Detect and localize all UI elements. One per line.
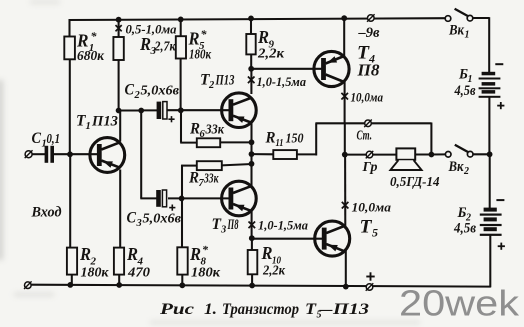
node T4 base tap bbox=[248, 66, 254, 72]
svg-text:R: R bbox=[188, 29, 200, 49]
label T5 bbox=[360, 217, 379, 240]
node T3 base/C3/R8 bbox=[179, 196, 185, 202]
label R8 180k bbox=[189, 243, 221, 281]
svg-text:П13: П13 bbox=[215, 73, 235, 89]
wire T1 emitter to R4 bbox=[119, 170, 121, 249]
svg-text:10,0ма: 10,0ма bbox=[351, 90, 384, 105]
bottom-left terminal bbox=[24, 281, 32, 289]
switch Vk2 bbox=[445, 145, 473, 157]
label R10 2.2k bbox=[261, 243, 286, 279]
battery B2 bbox=[480, 208, 502, 236]
x-mark 10.0mA (T4 collector) bbox=[341, 93, 348, 100]
svg-text:П8: П8 bbox=[227, 217, 239, 233]
label 0.5-1.0mA bbox=[126, 22, 177, 37]
wire input to C1 bbox=[32, 153, 46, 155]
node T1 base/R1/R2 bbox=[67, 151, 73, 157]
svg-text:R: R bbox=[76, 31, 88, 51]
capacitor C3 (polarized) bbox=[156, 190, 166, 207]
wire T4 base node to T2 collector (x-mark segment) bbox=[250, 69, 252, 94]
svg-text:0,5-1,0ма: 0,5-1,0ма bbox=[126, 22, 177, 37]
svg-text:Т: Т bbox=[305, 301, 317, 318]
wire R11 left bbox=[251, 153, 274, 155]
wire R8 bottom bbox=[181, 274, 183, 286]
label Vk2 bbox=[448, 159, 469, 177]
svg-text:33к: 33к bbox=[205, 122, 225, 137]
label Vk1 bbox=[448, 23, 469, 41]
wire R6 right bbox=[220, 141, 253, 143]
svg-text:680к: 680к bbox=[77, 49, 105, 64]
minus sign of B1 bbox=[495, 63, 503, 65]
label B2 bbox=[457, 205, 471, 224]
svg-text:4,5в: 4,5в bbox=[454, 83, 476, 99]
wire R9 bottom to T4 base node bbox=[250, 54, 252, 70]
resistor R9 bbox=[246, 34, 255, 54]
x-mark 1.0-1.5mA (T3 emitter) bbox=[249, 222, 256, 229]
caption Fig.1 bbox=[160, 301, 369, 321]
svg-text:Гр: Гр bbox=[362, 160, 378, 175]
label 0.5GD-14 bbox=[390, 175, 440, 190]
resistor R1 bbox=[64, 37, 75, 60]
svg-text:0,1: 0,1 bbox=[47, 131, 61, 146]
svg-text:2,7к: 2,7к bbox=[154, 39, 177, 54]
svg-text:150: 150 bbox=[286, 131, 304, 146]
label T2 P13 bbox=[200, 72, 235, 92]
svg-text:2: 2 bbox=[134, 90, 141, 101]
label -9V bbox=[357, 25, 380, 41]
node T4 emitter/top rail bbox=[341, 15, 347, 21]
svg-text:3: 3 bbox=[220, 225, 226, 236]
transistor T1 bbox=[90, 138, 125, 173]
wire R11 riser and ST line bbox=[315, 123, 431, 155]
svg-text:470: 470 bbox=[127, 266, 150, 281]
wire node A to C2/C3 tap bbox=[118, 109, 141, 111]
node R6 right/T2 emitter bbox=[249, 139, 255, 145]
wire battery B2 bottom to rail bbox=[489, 235, 491, 287]
svg-text:R: R bbox=[189, 244, 201, 264]
label R6 33k bbox=[189, 121, 225, 141]
node Vk2/battery midpoint bbox=[487, 151, 493, 157]
wire speaker to junction bbox=[415, 153, 432, 155]
plus sign of B2 bbox=[498, 243, 505, 250]
wire top supply rail -9V bbox=[69, 18, 446, 20]
transistor T4 bbox=[314, 51, 349, 86]
svg-text:R: R bbox=[126, 244, 138, 264]
switch Vk1 bbox=[445, 9, 473, 22]
label T3 P8 bbox=[212, 216, 239, 236]
node R9/top rail bbox=[248, 16, 254, 22]
resistor R3 bbox=[113, 37, 123, 60]
node R11 left bbox=[249, 151, 255, 157]
wire R3 top feed bbox=[118, 19, 120, 38]
label R9 2.2k bbox=[257, 27, 285, 62]
svg-text:Транзистор: Транзистор bbox=[222, 301, 299, 318]
wire R3 bottom to node A bbox=[118, 60, 120, 112]
svg-text:С: С bbox=[125, 82, 135, 99]
svg-text:10,0ма: 10,0ма bbox=[352, 200, 392, 215]
svg-text:R: R bbox=[139, 34, 151, 54]
svg-text:5,0х6в: 5,0х6в bbox=[143, 211, 182, 226]
watermark 20wek bbox=[399, 283, 520, 324]
input terminal bbox=[25, 150, 33, 158]
x-mark 1.0-1.5mA (T2 collector) bbox=[248, 77, 255, 84]
wire T1 collector riser bbox=[119, 110, 121, 142]
battery B1 bbox=[479, 72, 501, 98]
wire T5 emitter to bottom rail bbox=[345, 249, 347, 288]
resistor R4 bbox=[114, 248, 124, 275]
node R5/top rail bbox=[178, 17, 184, 23]
wire bottom positive rail bbox=[30, 285, 491, 287]
wire R4 bottom bbox=[118, 274, 120, 286]
resistor R6 (horizontal) bbox=[197, 138, 220, 147]
wire C1 to T1 base bbox=[54, 153, 98, 155]
wire C2/C3 vertical tap bbox=[140, 110, 142, 199]
label 4.5V of B2 bbox=[453, 221, 476, 237]
svg-text:180к: 180к bbox=[81, 266, 110, 281]
wire top rail from switch Vk1 to battery corner bbox=[473, 17, 489, 19]
terminal plus (bottom) bbox=[366, 283, 374, 291]
wire C2 right to T2 base bbox=[167, 109, 230, 111]
svg-text:33к: 33к bbox=[203, 171, 219, 186]
svg-text:П13: П13 bbox=[332, 301, 370, 318]
svg-text:R: R bbox=[257, 27, 269, 47]
plus sign of B1 bbox=[497, 102, 504, 109]
svg-text:—: — bbox=[319, 301, 333, 318]
wire output column T4 collector to T5 collector bbox=[344, 81, 347, 229]
node R7 right/T3 collector bbox=[249, 161, 255, 167]
wire between batteries bbox=[488, 97, 490, 208]
label C3 5.0x6V bbox=[127, 210, 182, 230]
svg-text:R: R bbox=[79, 244, 91, 264]
wire R7 right bbox=[222, 164, 253, 165]
terminal GR (speaker tap) bbox=[366, 151, 374, 159]
transistor T5 bbox=[315, 221, 350, 256]
node R4/bottom rail bbox=[116, 282, 122, 288]
wire R7 node to T3 collector bbox=[250, 164, 252, 188]
svg-text:П8: П8 bbox=[356, 61, 380, 80]
label ST bbox=[357, 129, 373, 144]
label Vhod (input) bbox=[31, 205, 62, 221]
svg-text:*: * bbox=[91, 29, 98, 43]
label B1 bbox=[458, 67, 472, 86]
svg-text:Вк: Вк bbox=[448, 159, 464, 175]
node R2/bottom rail bbox=[67, 282, 73, 288]
svg-text:2: 2 bbox=[463, 166, 469, 177]
svg-text:Т: Т bbox=[360, 217, 373, 238]
wire R10 bottom bbox=[251, 274, 253, 286]
node R10/bottom rail bbox=[249, 283, 255, 289]
wire R5 bottom feed bbox=[180, 58, 182, 112]
resistor R2 bbox=[67, 248, 77, 275]
label R5 180k bbox=[188, 27, 212, 62]
label 1.0-1.5mA bottom bbox=[258, 218, 308, 233]
svg-text:0,5ГД-14: 0,5ГД-14 bbox=[390, 175, 440, 190]
wire R11 right bbox=[297, 153, 317, 155]
wire T3 emitter to T5 base node bbox=[251, 210, 253, 239]
capacitor C1 bbox=[45, 146, 54, 163]
wire GR line from output column to speaker bbox=[345, 154, 397, 156]
label R1 680k bbox=[76, 29, 105, 64]
wire T4 emitter to top rail bbox=[343, 18, 345, 59]
svg-text:180к: 180к bbox=[191, 266, 221, 281]
node R3/top rail bbox=[116, 17, 122, 23]
svg-text:Рис: Рис bbox=[160, 301, 194, 318]
svg-text:Вк: Вк bbox=[448, 23, 464, 39]
wire R6 node to R11 node to R7 node bbox=[250, 142, 252, 166]
svg-text:3: 3 bbox=[136, 218, 142, 229]
wire T5 base node to R10 bbox=[251, 238, 253, 251]
x-mark 10.0mA (T5 collector) bbox=[342, 202, 349, 209]
label C2 5.0x6V bbox=[125, 82, 180, 102]
speaker Gr 0.5GD-14 bbox=[390, 148, 421, 170]
svg-text:*: * bbox=[201, 27, 208, 41]
transistor T3 bbox=[222, 181, 257, 216]
wire T2 emitter to R6 node bbox=[250, 121, 252, 143]
label T1 P13 bbox=[76, 113, 118, 133]
svg-text:1: 1 bbox=[465, 30, 470, 41]
label R11 150 bbox=[265, 130, 304, 150]
svg-text:1,0-1,5ма: 1,0-1,5ма bbox=[257, 74, 307, 89]
svg-text:5: 5 bbox=[372, 226, 378, 240]
transistor T2 bbox=[222, 93, 257, 128]
terminal ST (battery midpoint tap) bbox=[364, 120, 372, 128]
svg-text:*: * bbox=[202, 243, 209, 257]
wire left column R1-R2 (x=70) bbox=[70, 19, 72, 286]
wire junction to switch Vk2 bbox=[431, 153, 445, 155]
svg-text:2: 2 bbox=[208, 80, 215, 91]
plus sign of C3 bbox=[169, 205, 175, 211]
label T4 P8 bbox=[356, 43, 380, 80]
svg-text:–9в: –9в bbox=[357, 25, 380, 41]
svg-text:1.: 1. bbox=[204, 301, 217, 318]
svg-text:1: 1 bbox=[86, 121, 91, 132]
minus sign of B2 bbox=[496, 199, 504, 201]
svg-text:Б: Б bbox=[457, 205, 467, 221]
wire switch Vk2 to battery midpoint bbox=[473, 153, 490, 155]
node R8/bottom rail bbox=[179, 282, 185, 288]
wire ST corner down to GR line bbox=[430, 123, 432, 156]
node T5 base tap bbox=[249, 235, 255, 241]
wire T3 base node down to R8 bbox=[181, 198, 183, 249]
node GR tap on output column bbox=[342, 152, 348, 158]
terminal -9V bbox=[367, 14, 375, 22]
resistor R11 (horizontal) bbox=[273, 150, 297, 159]
wire C3 right to T3 base bbox=[168, 197, 229, 199]
label R7 33k bbox=[188, 170, 219, 190]
label R4 470 bbox=[126, 244, 150, 281]
wire C2 left bbox=[141, 109, 158, 111]
svg-text:2,2к: 2,2к bbox=[257, 47, 285, 62]
wire tap corner to C3 left plate bbox=[140, 197, 157, 199]
svg-text:180к: 180к bbox=[189, 47, 212, 62]
capacitor C2 (polarized) bbox=[157, 102, 167, 119]
wire R9 top feed bbox=[250, 18, 252, 35]
svg-text:5,0х6в: 5,0х6в bbox=[141, 83, 180, 98]
svg-text:П13: П13 bbox=[91, 114, 118, 130]
label R3 2.7k bbox=[139, 34, 176, 57]
plus sign of C2 bbox=[168, 116, 174, 122]
wire battery column top bbox=[488, 17, 490, 72]
label 4.5V of B1 bbox=[454, 83, 476, 99]
resistor R8 bbox=[177, 247, 187, 274]
node C2/C3 tap bbox=[138, 108, 144, 114]
x-mark 0.5-1.0mA (R3 current) bbox=[116, 25, 122, 31]
node T2 base/R5/C2 bbox=[178, 107, 184, 113]
wire R7 left to T3 base node bbox=[181, 165, 197, 199]
svg-text:20wek: 20wek bbox=[399, 283, 520, 324]
svg-text:2,2к: 2,2к bbox=[262, 264, 286, 279]
label GR bbox=[362, 160, 378, 175]
label 1.0-1.5mA top bbox=[257, 74, 307, 89]
wire T4 base horizontal bbox=[251, 68, 323, 70]
plus sign at bottom terminal bbox=[366, 272, 374, 280]
svg-text:1,0-1,5ма: 1,0-1,5ма bbox=[258, 218, 308, 233]
wire R5 top feed bbox=[180, 19, 182, 37]
svg-text:Ст.: Ст. bbox=[357, 129, 373, 144]
resistor R5 bbox=[176, 36, 186, 58]
wire T2 base node down to R6 bbox=[180, 110, 197, 143]
node A (R3 bottom, T1 collector) bbox=[116, 108, 122, 114]
label 10.0mA bottom bbox=[352, 200, 392, 215]
svg-text:R: R bbox=[261, 243, 273, 263]
svg-text:С: С bbox=[127, 210, 137, 227]
wire T5 base horizontal bbox=[252, 238, 324, 240]
node ST-GR join bbox=[429, 152, 435, 158]
label 10.0mA top bbox=[351, 90, 384, 105]
svg-text:11: 11 bbox=[276, 138, 284, 149]
resistor R10 bbox=[248, 250, 258, 274]
label R2 180k bbox=[79, 244, 109, 281]
svg-text:R: R bbox=[265, 130, 276, 147]
node T5 emitter/bottom rail bbox=[343, 284, 349, 290]
svg-text:Вход: Вход bbox=[31, 205, 62, 221]
svg-text:С: С bbox=[32, 130, 42, 147]
svg-text:Б: Б bbox=[458, 67, 468, 83]
label C1 0.1 bbox=[32, 130, 61, 150]
resistor R7 (horizontal) bbox=[197, 161, 222, 170]
svg-text:4,5в: 4,5в bbox=[453, 221, 476, 237]
